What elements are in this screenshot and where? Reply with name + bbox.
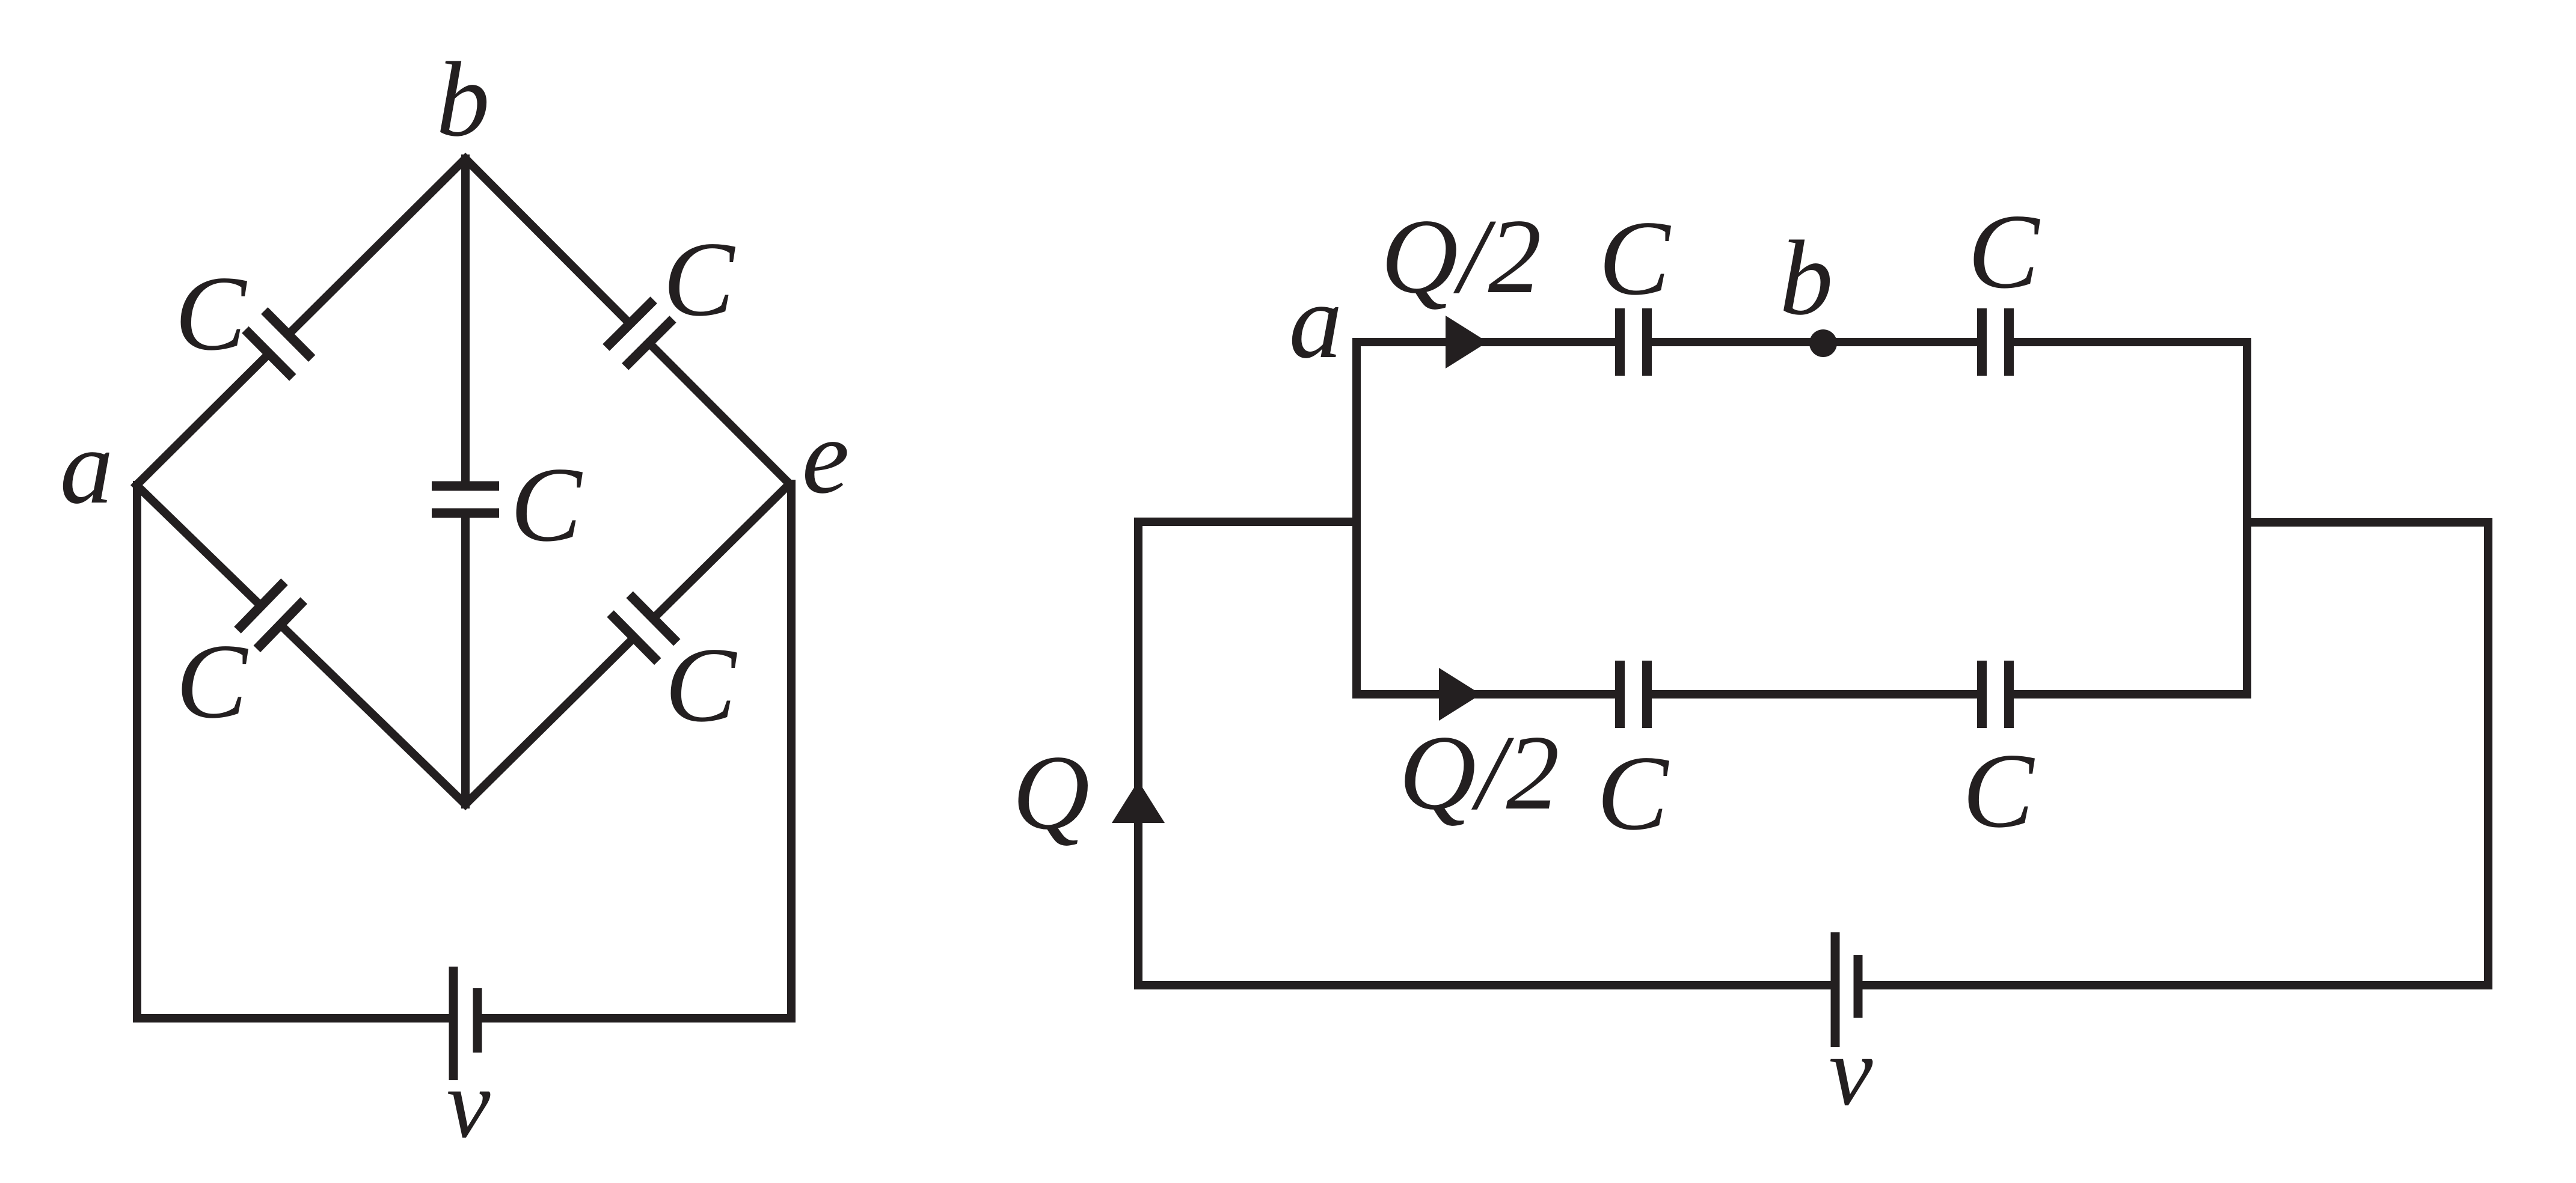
capacitor C2 (b-e) plate 2 [625,319,673,367]
capacitor C (lower branch left) plate 1 [1615,661,1625,728]
wire bottom right of battery V2 [1862,981,2488,989]
svg-text:C: C [663,219,736,338]
svg-text:C: C [1597,733,1670,852]
svg-text:C: C [665,625,738,744]
svg-text:Q: Q [1013,733,1090,852]
battery V1 short plate (-) [473,988,482,1053]
wire b to C3 (middle vertical) [461,159,470,486]
svg-text:b: b [437,40,490,159]
wire right branch junction vertical [2243,342,2251,694]
wire left connector to outer loop [1138,522,1357,985]
wire e to C5 (e-d side) [653,484,790,619]
svg-text:C: C [1599,198,1672,317]
wire a to C4 (a-d side) [136,485,261,606]
svg-text:Q/2: Q/2 [1381,197,1542,316]
svg-text:C: C [176,622,249,741]
capacitor C5 (e-d) plate 2 [610,614,658,662]
wire b to C2 (b-e side) [465,159,630,324]
wire C2 to e (b-e side) [649,343,790,485]
wire bottom left of battery V2 [1138,981,1831,989]
current arrow Q/2 (lower branch) [1439,668,1481,721]
battery V2 long plate (+) [1831,932,1840,1047]
wire a to C (lower branch, with current arrow) [1357,690,1620,698]
capacitor C (top branch right) plate 2 [2004,308,2014,376]
wire left branch junction vertical [1352,342,1361,694]
capacitor C2 (b-e) plate 1 [606,300,654,347]
capacitor C4 (a-d) plate 2 [257,601,304,649]
wire a to C (top branch, with current arrow) [1357,338,1620,346]
wire C to right join (lower branch) [2009,690,2247,698]
capacitor C4 (a-d) plate 1 [238,582,284,630]
capacitor C3 (middle) bottom plate [432,509,499,518]
svg-text:C: C [1963,731,2035,850]
current arrow Q (left outer wire) [1112,781,1165,823]
node b junction dot [1809,329,1837,357]
capacitor C (top branch left) plate 1 [1615,308,1625,376]
capacitor C1 (a-b) plate 1 [245,330,293,378]
capacitor C (top branch left) plate 2 [1642,308,1652,376]
svg-text:C: C [1968,192,2041,311]
capacitor C5 (e-d) plate 1 [630,595,677,643]
wire C to node b (top branch) [1647,338,1982,346]
wire C5 to d (e-d side) [465,638,634,804]
svg-text:v: v [447,1050,491,1158]
svg-text:v: v [1829,1017,1873,1126]
capacitor C (lower branch right) plate 2 [2004,661,2014,728]
wire between capacitors (lower branch) [1647,690,1982,698]
wire right connector to outer loop [2247,522,2488,985]
wire node b to C (top branch) [2009,338,2247,346]
svg-text:C: C [511,445,583,564]
capacitor C (lower branch right) plate 1 [1977,661,1987,728]
svg-text:b: b [1780,218,1833,337]
battery V2 short plate (-) [1854,955,1863,1018]
wire C1 to b (a-b side) [288,159,465,335]
capacitor C3 (middle) top plate [432,481,499,491]
svg-text:C: C [175,254,248,373]
svg-text:a: a [60,407,114,526]
wire C3 to d (middle vertical) [461,513,470,805]
capacitor C (top branch right) plate 1 [1977,308,1987,376]
capacitor C1 (a-b) plate 2 [265,311,312,359]
wire C4 to d (a-d side) [280,625,465,804]
svg-text:e: e [802,397,849,516]
battery V1 long plate (+) [449,967,458,1080]
wire a to C1 (a-b side) [136,353,269,485]
current arrow Q/2 (top branch) [1446,316,1488,368]
svg-text:a: a [1289,261,1343,381]
svg-text:Q/2: Q/2 [1399,713,1560,832]
capacitor C (lower branch left) plate 2 [1642,661,1652,728]
wire a down left side [137,485,449,1018]
wire battery V1 to right side up to e [482,484,791,1018]
